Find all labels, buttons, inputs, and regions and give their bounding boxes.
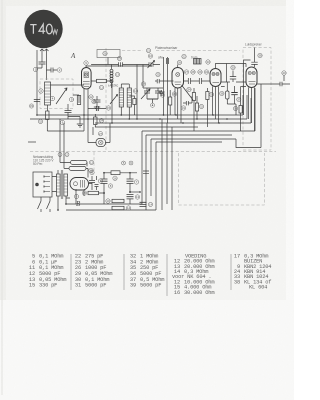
svg-text:KL 604: KL 604 [249, 285, 267, 291]
table column rule 1 [70, 254, 72, 290]
wire plate line top [216, 64, 247, 83]
resistor 12 feed [71, 160, 88, 164]
svg-text:41: 41 [90, 171, 94, 175]
capacitor C1 [37, 56, 46, 68]
resistor 15 psu [88, 191, 99, 194]
electrolytic capacitor 8 [101, 173, 108, 193]
svg-text:Luidspreker: Luidspreker [245, 43, 263, 47]
wave switch arrow [56, 88, 67, 104]
variable arrow padder [141, 89, 150, 99]
svg-text:23: 23 [92, 100, 96, 104]
wire tube2 pins [175, 65, 181, 124]
wire loop coil leads [111, 65, 113, 89]
choke resistor 16 [111, 171, 120, 175]
tube 24 KBN [172, 68, 184, 89]
svg-text:27: 27 [185, 70, 189, 74]
svg-text:34: 34 [205, 70, 209, 74]
antenna [40, 49, 49, 56]
tube 9 KBN2 [82, 68, 92, 90]
resistor 32 vertical [195, 103, 198, 111]
heater terminal circle 2 [65, 153, 69, 157]
table column rule 4 [230, 254, 232, 290]
svg-text:330 pF: 330 pF [39, 283, 57, 289]
svg-text:33: 33 [206, 60, 210, 64]
resistor 32 vertical [46, 111, 49, 120]
capacitor top of output tube [251, 48, 257, 68]
terminal circle 40 [282, 71, 286, 75]
power transformer [57, 170, 68, 199]
wire lower rails [66, 204, 156, 210]
svg-text:12: 12 [89, 95, 93, 99]
capacitor 14b bottom [140, 202, 147, 206]
svg-text:29: 29 [198, 70, 202, 74]
svg-text:11: 11 [100, 86, 103, 90]
pickup transformer trom [194, 59, 202, 65]
svg-text:35: 35 [234, 107, 238, 111]
wire inside speaker box [244, 60, 251, 115]
svg-text:A: A [70, 52, 76, 60]
wire left stub [28, 141, 36, 143]
mains dashed vertical [93, 152, 95, 171]
svg-text:38: 38 [258, 54, 262, 58]
wire label box riser [107, 58, 109, 65]
svg-text:31: 31 [182, 106, 186, 110]
svg-text:25: 25 [156, 73, 160, 77]
wire bus y123 [95, 122, 251, 124]
svg-text:40: 40 [282, 71, 286, 75]
svg-text:13: 13 [136, 195, 140, 199]
svg-text:38: 38 [234, 279, 240, 285]
svg-text:16: 16 [113, 177, 117, 181]
grid capacitor 23 [88, 106, 106, 111]
pickup terminal circle 22 [182, 54, 186, 58]
coil box dashed [40, 79, 73, 109]
chassis dashed line top [122, 50, 240, 52]
capacitor 40 output [257, 75, 290, 86]
wire bus y115 [37, 114, 243, 116]
top-left label box [97, 50, 120, 58]
wire screen line [221, 82, 246, 87]
svg-text:39: 39 [130, 283, 136, 289]
svg-text:30.000 Ohm: 30.000 Ohm [184, 290, 214, 296]
capacitor 12b on riser [143, 171, 149, 173]
wire bus y139 [151, 138, 236, 140]
loudspeaker dashed box [243, 48, 271, 151]
resistor 36 vertical [226, 91, 229, 99]
terminal circle 3 [74, 194, 78, 198]
parts list column 5 buizen [234, 253, 271, 290]
resistor 11 right of tube [97, 79, 107, 82]
svg-text:33: 33 [210, 93, 214, 97]
pickup terminal circle 21 [146, 48, 150, 52]
wire psu joins [66, 184, 104, 205]
svg-text:32: 32 [39, 120, 43, 124]
wire tube top plate [86, 66, 152, 68]
node dots psu [103, 192, 105, 194]
wire drop left x37 [36, 50, 38, 115]
IF coil column a [119, 88, 123, 107]
wire coil columns down [121, 84, 129, 119]
wire pickup drops [164, 57, 168, 123]
svg-text:31: 31 [75, 283, 81, 289]
coupling capacitor 31 [183, 96, 192, 105]
capacitor pair 9 psu [89, 176, 99, 190]
wire drops to power section [142, 119, 172, 210]
wire risers right tubes [243, 88, 255, 131]
mains switch b [47, 197, 51, 212]
capacitor 6 top left [65, 104, 72, 119]
grid coupling capacitor 25 [155, 79, 174, 83]
resistor 30 vertical [169, 97, 172, 105]
svg-text:12: 12 [90, 161, 94, 165]
IF coil column b [127, 88, 131, 107]
shield dashed vertical near tube 9 [105, 48, 107, 150]
chassis dashed bottom rail [30, 151, 276, 153]
wire riser x137 [137, 65, 143, 120]
capacitor 33 on antenna line [34, 100, 40, 102]
power section dashed boundary [179, 153, 265, 205]
wire bus y131 [142, 130, 255, 132]
main bus wires [28, 48, 290, 213]
capacitor 29 series [199, 78, 210, 84]
svg-text:22: 22 [182, 55, 186, 59]
svg-text:5000 pF: 5000 pF [85, 283, 106, 289]
heater terminal circle 1 [58, 153, 62, 157]
mains switch a [38, 197, 42, 212]
wire output staircase [236, 84, 261, 148]
resistor 5 [77, 96, 80, 105]
svg-text:28: 28 [191, 70, 195, 74]
svg-text:16: 16 [149, 54, 153, 58]
capacitor 30 between tubes [230, 71, 236, 83]
ground symbol tube1 [94, 107, 100, 110]
capacitor 37 [231, 86, 237, 104]
ground symbol tube2 [158, 90, 164, 95]
capacitor 27 series [184, 78, 200, 84]
table column rule 2 [123, 254, 125, 290]
svg-text:17: 17 [142, 82, 146, 86]
parts list column 4 voeding [172, 253, 214, 295]
oscillator loop coil 13 [110, 69, 113, 82]
capacitor 13b stacked [127, 195, 134, 205]
svg-text:±452kc: ±452kc [108, 84, 119, 88]
capacitor 19 series [119, 62, 123, 66]
svg-text:14: 14 [127, 206, 131, 210]
wire node to coil [46, 70, 48, 80]
dial lamp [96, 139, 106, 147]
wire output tube pins [249, 88, 255, 132]
resistor 33a vertical [206, 92, 209, 100]
svg-text:15: 15 [107, 106, 111, 110]
wire label circle a [122, 161, 126, 165]
capacitor 12 below [94, 96, 101, 107]
svg-text:33: 33 [30, 104, 34, 108]
svg-text:5000 pF: 5000 pF [140, 283, 161, 289]
padder capacitor 17 [143, 88, 163, 99]
wire tube3 pins [213, 87, 219, 124]
parts list column 3 [130, 254, 164, 289]
parts list column 1 [29, 254, 66, 289]
table column rule 3 [166, 254, 168, 296]
trimmer capacitor 16 [149, 62, 153, 66]
terminal circle padder [147, 99, 158, 103]
wire bus y127 [95, 126, 198, 128]
svg-text:afw.: afw. [158, 56, 164, 60]
svg-text:14: 14 [149, 203, 153, 207]
svg-text:32: 32 [200, 105, 204, 109]
svg-text:50 Per.: 50 Per. [33, 162, 43, 166]
svg-text:26: 26 [178, 61, 182, 65]
wire cap13 to riser [130, 191, 140, 193]
wire coil bottom down [47, 105, 84, 131]
resistor 13 feed [69, 166, 86, 170]
output tube 38 KL [246, 67, 257, 88]
grid diagonal wire [182, 85, 194, 100]
wire transformer leads [52, 119, 66, 210]
electrolytic capacitor 7 [127, 173, 134, 192]
grid wire y64 [91, 64, 160, 66]
wire coil to tube [51, 85, 85, 103]
svg-text:27: 27 [99, 132, 103, 136]
svg-text:20: 20 [103, 52, 107, 56]
svg-text:24: 24 [100, 119, 104, 123]
rectifier tube 41 [70, 178, 89, 191]
svg-text:15: 15 [83, 191, 87, 195]
mains connector box [33, 172, 52, 197]
svg-text:Platenwisselaar: Platenwisselaar [155, 46, 178, 50]
resistor 35 vertical [239, 106, 242, 114]
svg-text:30: 30 [173, 92, 177, 96]
parts list column 2 [75, 254, 112, 289]
logo circle T40W [24, 10, 62, 48]
svg-text:16: 16 [174, 290, 180, 296]
grid resistor 24 [94, 117, 97, 125]
wire bus y135 [146, 134, 232, 136]
svg-text:10: 10 [106, 199, 110, 203]
capacitor C2 [47, 56, 58, 73]
wire join below tube3 [227, 104, 236, 115]
resistor 10 psu [112, 199, 124, 202]
padder capacitor 18 [147, 88, 161, 99]
tube 33 KBN [210, 69, 221, 87]
pickup coupling capacitor [167, 58, 169, 64]
svg-text:19: 19 [118, 57, 122, 61]
svg-text:34: 34 [187, 88, 191, 92]
mini coil 28 [133, 99, 136, 105]
wire lamp leads [88, 119, 110, 143]
svg-text:21: 21 [147, 49, 151, 53]
coil L3 [45, 82, 51, 105]
wire tube pins down [84, 89, 88, 119]
wire label circle b [129, 161, 133, 165]
ground symbol left [68, 117, 83, 128]
resistor 14 psu [112, 206, 124, 209]
svg-text:30: 30 [231, 66, 235, 70]
svg-text:13: 13 [116, 73, 120, 77]
resistor 34 vertical [192, 93, 195, 101]
wire bus y142 [156, 141, 222, 143]
svg-text:17: 17 [234, 253, 240, 259]
trimmer arrow coil [110, 95, 118, 105]
junction dots [36, 114, 228, 211]
svg-text:15: 15 [29, 283, 35, 289]
wire bus y119 [30, 118, 247, 120]
svg-text:36: 36 [220, 92, 224, 96]
